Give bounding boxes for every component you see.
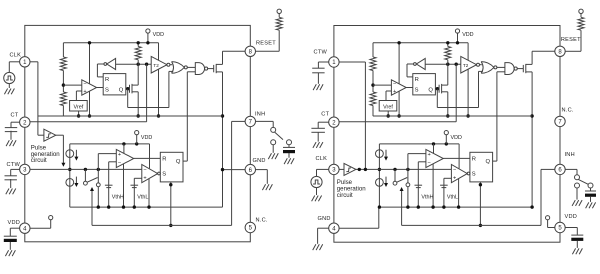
svg-text:−: −	[118, 160, 121, 166]
svg-text:CTW: CTW	[314, 50, 328, 56]
svg-text:INH: INH	[255, 112, 265, 118]
svg-text:+: +	[143, 175, 146, 181]
svg-text:S: S	[105, 88, 109, 94]
svg-text:circuit: circuit	[31, 157, 47, 164]
svg-text:Q: Q	[176, 159, 181, 165]
svg-text:N.C.: N.C.	[562, 108, 574, 114]
svg-text:−: −	[83, 82, 86, 88]
svg-text:Vref: Vref	[383, 105, 393, 111]
svg-text:VDD: VDD	[141, 135, 152, 141]
svg-text:+: +	[393, 89, 396, 95]
svg-text:CT: CT	[11, 113, 19, 119]
svg-text:circuit: circuit	[337, 192, 353, 199]
svg-text:VDD: VDD	[451, 135, 462, 141]
svg-text:GND: GND	[253, 158, 266, 164]
svg-text:+: +	[118, 152, 121, 158]
svg-text:VDD: VDD	[8, 220, 21, 226]
svg-text:CLK: CLK	[316, 156, 328, 162]
svg-text:VthH: VthH	[421, 194, 433, 200]
svg-text:S: S	[415, 88, 419, 94]
svg-text:VthL: VthL	[447, 194, 458, 200]
svg-text:VDD: VDD	[153, 32, 164, 38]
svg-text:Q: Q	[119, 88, 124, 94]
svg-text:Q: Q	[486, 159, 491, 165]
svg-text:+: +	[428, 152, 431, 158]
svg-text:CT: CT	[321, 111, 329, 117]
svg-text:Vref: Vref	[74, 105, 84, 111]
svg-text:RESET: RESET	[256, 41, 276, 47]
svg-text:CLK: CLK	[10, 53, 22, 59]
svg-text:R: R	[415, 77, 419, 83]
svg-text:+: +	[453, 175, 456, 181]
svg-text:S: S	[472, 172, 476, 178]
svg-text:VDD: VDD	[565, 214, 578, 220]
svg-text:−: −	[453, 167, 456, 173]
svg-text:VDD: VDD	[462, 32, 473, 38]
svg-text:R: R	[162, 157, 166, 163]
svg-text:−: −	[428, 160, 431, 166]
svg-text:N.C.: N.C.	[256, 218, 268, 224]
svg-text:T2: T2	[153, 63, 159, 68]
svg-text:S: S	[162, 172, 166, 178]
svg-text:T2: T2	[463, 63, 469, 68]
svg-text:RESET: RESET	[561, 37, 581, 43]
svg-text:R: R	[105, 77, 109, 83]
svg-text:R: R	[472, 157, 476, 163]
svg-text:VthH: VthH	[112, 194, 124, 200]
svg-text:+: +	[83, 89, 86, 95]
svg-text:−: −	[393, 82, 396, 88]
svg-text:INH: INH	[565, 152, 575, 158]
svg-text:Q: Q	[428, 88, 433, 94]
svg-text:GND: GND	[318, 216, 331, 222]
svg-text:VthL: VthL	[137, 194, 148, 200]
svg-text:−: −	[143, 167, 146, 173]
svg-text:CTW: CTW	[7, 162, 21, 168]
